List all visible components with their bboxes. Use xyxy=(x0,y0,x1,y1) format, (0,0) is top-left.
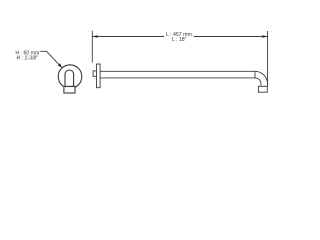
node: side view escutcheon plate xyxy=(97,64,101,88)
wire: leader line from H label xyxy=(40,51,59,64)
wire: left extension line (wall plane) xyxy=(91,31,93,63)
svg-text:L : 18": L : 18" xyxy=(172,37,187,43)
wire: arm tube top line xyxy=(100,70,255,72)
node: front view end cap nut xyxy=(64,87,75,94)
wire: dimension line L, right segment xyxy=(194,36,268,38)
wire: elbow joint seam xyxy=(254,71,256,78)
node: left dimension arrowhead xyxy=(92,35,97,38)
node: front view arm tube (inverted U silhouette) xyxy=(65,70,74,86)
wire: dimension line L, left segment xyxy=(92,36,164,38)
node: leader arrowhead xyxy=(58,63,63,68)
node: right dimension arrowhead xyxy=(262,35,267,38)
svg-text:H : 2-3/8": H : 2-3/8" xyxy=(17,55,39,61)
node: front view escutcheon flange circle xyxy=(58,65,82,89)
wire: right extension line (arm end) xyxy=(267,31,269,86)
wire: elbow inner curve xyxy=(255,78,261,86)
wire: elbow outer curve xyxy=(255,71,268,86)
node: side view end cap nut xyxy=(258,86,267,92)
wire: arm tube bottom line xyxy=(100,77,255,79)
node: side view wall supply stub xyxy=(93,71,96,76)
